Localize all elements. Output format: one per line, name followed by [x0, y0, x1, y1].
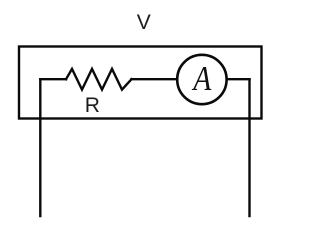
wire resistor to ammeter: [132, 78, 177, 80]
svg-text:A: A: [192, 59, 212, 98]
wire left horizontal: [40, 78, 66, 80]
resistor R1: [66, 69, 132, 90]
svg-text:V: V: [137, 11, 151, 34]
svg-text:R: R: [85, 94, 100, 117]
ammeter U1: [177, 55, 226, 104]
wire left lead down: [39, 79, 41, 216]
wire ammeter to right: [228, 78, 250, 80]
label A: [192, 59, 212, 98]
wire right lead down: [248, 79, 250, 216]
voltmeter box V: [19, 47, 262, 119]
